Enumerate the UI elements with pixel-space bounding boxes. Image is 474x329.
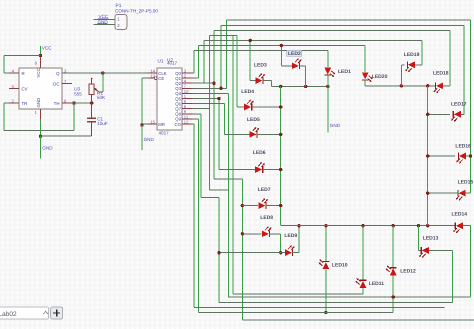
svg-text:LED14: LED14 [452,212,468,218]
node LED9 feed junction [217,251,220,254]
svg-text:LED12: LED12 [400,268,416,274]
node LED8-9 junction [279,251,282,254]
svg-text:LED17: LED17 [451,101,467,107]
wire LED2 cathode [299,66,306,87]
wire bus L7 [194,50,328,73]
wire LED6 anode [219,169,255,171]
node LED6 junction [279,168,282,171]
wire bus L3 [214,30,450,83]
LED LED3 [255,73,265,84]
label LED3 [254,63,267,69]
wire LED1 riser [327,50,329,67]
wire bottom bus 6 [242,319,474,321]
label U1 U2 4017 [158,58,178,66]
label LED13 [423,235,439,241]
wire Q to CLK [62,72,147,74]
wire LED14 anode [463,226,470,297]
wire cathode row right [365,85,435,87]
LED LED16 [456,153,466,164]
wire CO row [193,124,195,307]
op-amp U1 U2 4017 counter [147,68,193,130]
label 4017 bottom [159,131,170,136]
LED LED17 [451,111,461,122]
LED LED11 [356,278,367,288]
wire VCC to R [4,56,41,74]
label LED9 [284,233,297,239]
wire LED8 cathode [269,234,281,253]
op-amp U3 555 timer [9,58,72,119]
node TH-R1 junction [90,101,93,104]
label R1 50K [97,91,106,101]
svg-text:50K: 50K [97,95,106,100]
LED LED6 [255,162,265,173]
wire cathode bus top-left [271,85,328,87]
wire LED20 riser [364,45,366,72]
svg-text:LED10: LED10 [332,263,348,269]
svg-text:VCC: VCC [36,68,41,77]
node LED7 junction [279,204,282,207]
wire LED10 anode [325,269,327,312]
wire 555 GND [40,119,42,136]
node Q-wiper junction [101,71,104,74]
wire bottom bus 1 [233,293,363,295]
wire LED16 anode [466,20,471,193]
node Q5 junction [217,97,220,100]
LED LED13 [419,247,429,258]
svg-text:LED19: LED19 [404,52,420,58]
svg-text:12: 12 [184,119,189,124]
node VCC junction [39,54,42,57]
wire bus L2 [221,25,464,88]
svg-text:GND: GND [330,123,341,128]
svg-text:LED1: LED1 [338,69,351,75]
wire bottom bus 5 [199,312,394,314]
LED LED15 [456,190,466,201]
resistor R1 potentiometer [89,78,103,103]
wire R pin [4,72,9,74]
svg-text:LED2: LED2 [288,51,301,57]
LED LED12 [386,266,397,276]
svg-text:R: R [22,71,25,76]
wire LED12 anode [392,276,394,313]
tab bar [0,307,63,319]
svg-text:LED13: LED13 [423,235,439,241]
svg-text:LED5: LED5 [247,117,260,123]
wire LED9 cathode [292,226,299,253]
node right-column junction [426,84,429,87]
wire LED20 cathode [364,80,366,86]
node Q3 junction [219,87,222,90]
svg-text:2: 2 [117,23,120,28]
wire Q4 row [193,93,229,297]
wire TR loop [4,103,74,131]
wire LED4 cathode [252,106,281,108]
svg-text:15: 15 [150,119,155,124]
svg-text:GND: GND [36,98,41,108]
net label GND at P1 [97,19,108,24]
svg-text:LED15: LED15 [458,179,474,185]
label LED20 [372,74,388,80]
wire LED7 anode [242,205,258,207]
LED LED10 [318,259,329,269]
label LED16 [455,144,471,150]
node bus-LED2 junction [304,85,307,88]
label U3 555 [74,87,82,97]
svg-text:1: 1 [35,110,38,115]
LED LED7 [258,198,268,209]
node LED17 row junction [426,113,429,116]
node LED12 anode junction [392,295,395,298]
node LED11 top junction [361,224,364,227]
ground flag GND (4017) [142,125,154,150]
wire CE to ground [142,78,147,125]
label LED17 [451,101,467,107]
svg-text:LED4: LED4 [241,89,254,95]
wire Q3 row [193,87,227,89]
connector P1 [115,3,158,29]
wire Q0 row [193,72,195,74]
node LED4 junction [279,105,282,108]
label LED8 [260,215,273,221]
wire Q2 row [193,83,243,320]
svg-text:Q: Q [56,71,60,76]
label LED11 [369,281,385,287]
node LED19 cathode junction [400,84,403,87]
node LED16 row junction [426,154,429,157]
wire LED9 anode [219,252,285,254]
svg-text:CONN-TH_2P-P5.00: CONN-TH_2P-P5.00 [115,9,158,14]
wire return column [427,86,429,226]
svg-text:LED7: LED7 [258,187,271,193]
LED LED18 [434,82,444,93]
wire P1 pin2 [94,24,116,26]
LED LED19 [405,61,415,72]
node LED12 top junction [392,224,395,227]
LED LED14 [453,222,463,233]
label LED7 [258,187,271,193]
svg-text:LED16: LED16 [455,144,471,150]
net label VCC at P1 [98,14,109,19]
wire LED2 anode riser [281,45,292,65]
wire Q1 row [193,77,199,79]
capacitor C1 [87,103,96,136]
node CE-MR junction [140,123,143,126]
wire bus L1 [226,20,470,88]
wire LED5 anode [225,133,250,135]
label LED19 [404,52,420,58]
wire Q6 row [193,104,225,135]
wire LED15 cathode [428,192,459,194]
node bus-chain junction [279,85,282,88]
ground flag GND (555) [41,136,54,158]
wire LED17 cathode [428,113,451,115]
wire L4 jog [209,189,228,191]
svg-text:GND: GND [42,146,53,151]
wire bottom bus 3 [219,302,453,304]
wire Q5 row [193,99,220,170]
wire LED chain vertical [280,86,282,225]
LED LED20 [362,72,373,82]
wire LED8 anode [242,233,261,235]
svg-text:LED18: LED18 [433,70,449,76]
node GND junction [39,135,42,138]
node return column junction [426,224,429,227]
wire LED4 anode [237,35,244,107]
wire LED16 cathode [428,155,455,157]
label LED14 [452,212,468,218]
wire bus L5 [204,40,422,83]
svg-text:LED11: LED11 [369,281,385,287]
wire cathode bus bottom [281,224,456,226]
node LED16 anode junction [469,154,472,157]
svg-text:VCC: VCC [42,45,52,50]
node LED5 junction [279,133,282,136]
wire bus L4 [209,35,237,190]
node LED13 feed junction [417,224,420,227]
label LED5 [247,117,260,123]
svg-text:CO: CO [175,122,182,127]
node L5-LED3 junction [249,39,252,42]
wire bottom bus 4 [194,307,445,309]
node TH-TR junction [72,101,75,104]
wire GND bus to C1 [41,135,92,137]
wire LED13 anode [429,250,452,302]
svg-text:GND: GND [144,137,155,142]
wire TH to R1 [72,102,92,104]
LED LED9 [285,245,295,256]
LED LED8 [262,226,272,237]
node LED7 anode junction [241,204,244,207]
svg-text:MR: MR [158,122,165,127]
label LED12 [400,268,416,274]
svg-text:GND: GND [98,19,109,24]
node LED10 junction [324,311,327,314]
svg-text:Lab02: Lab02 [0,311,17,318]
node bus-LED1 junction [326,85,329,88]
wire LED19 cathode [401,65,404,86]
ground flag GND (bus) [328,86,341,132]
svg-text:1: 1 [117,17,120,22]
wire LED5 cathode [257,133,281,135]
wire bus L6 [199,45,366,78]
svg-text:13: 13 [150,73,155,78]
wire LED13 cathode [418,226,421,251]
wire bottom bus 2 [228,296,470,298]
svg-text:LED9: LED9 [284,233,297,239]
LED LED2 [292,58,302,69]
wire LED11 anode [362,288,364,294]
wire MR to ground [142,124,147,125]
label LED6 [253,150,266,156]
svg-text:LED8: LED8 [260,215,273,221]
node Q2 junction [212,82,215,85]
svg-text:8: 8 [35,61,38,66]
wire LED12 cathode [392,226,394,268]
svg-text:U1: U1 [158,59,164,64]
label C1 10uF [97,117,108,127]
svg-text:CE: CE [158,76,164,81]
svg-text:VCC: VCC [99,14,109,19]
svg-text:4017: 4017 [159,131,170,136]
label LED2 [287,50,302,57]
LED LED5 [250,127,260,138]
node LED8 anode junction [241,232,244,235]
label LED1 [338,69,351,75]
wire Q9 row [193,119,199,313]
svg-text:CV: CV [22,87,28,92]
wire P1 pin1 [94,18,116,20]
svg-text:LED6: LED6 [253,150,266,156]
label LED15 [458,179,474,185]
label LED10 [332,263,348,269]
svg-text:LED20: LED20 [372,74,388,80]
label LED18 [433,70,449,76]
wire LED15 anode [466,192,471,194]
node LED15 row junction [426,192,429,195]
power flag VCC [41,45,53,58]
wire LED7 cathode [266,205,281,207]
wire LED18 anode [443,30,450,86]
wire LED17 anode [461,25,464,114]
node LED9 cathode junction [297,224,300,227]
wire Q7 row [193,108,210,110]
wire LED3 anode riser [250,40,255,80]
svg-text:10uF: 10uF [97,121,108,126]
svg-text:LED3: LED3 [254,63,267,69]
svg-text:TH: TH [54,101,60,106]
wire LED19 anode [415,40,422,64]
wire Q8 row [193,114,220,303]
LED LED1 [324,68,335,78]
wire R1 wiper riser [102,73,104,92]
wire LED6 cathode [262,169,281,171]
node L6-LED2 junction [280,44,283,47]
LED LED4 [244,100,254,111]
svg-text:4017: 4017 [167,61,178,66]
svg-text:DC: DC [53,82,59,87]
wire LED1 cathode [327,75,329,87]
wire L4 descender [232,35,234,294]
wire LED10 cathode [325,226,327,261]
label LED4 [241,89,254,95]
svg-text:555: 555 [74,91,82,96]
wire LED11 cathode [362,226,364,280]
wire LED3 cathode [263,81,272,87]
svg-text:TR: TR [22,101,28,106]
node LED10 cathode junction [324,224,327,227]
